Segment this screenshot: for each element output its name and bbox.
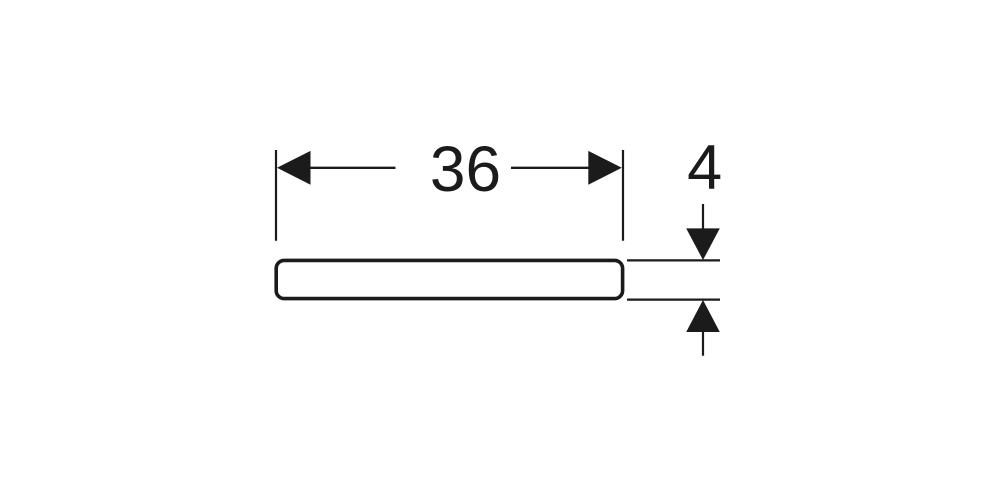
lower stem of thickness dimension <box>702 332 704 356</box>
left arrowhead of width dimension <box>277 151 311 185</box>
down arrowhead of thickness dimension <box>686 228 720 260</box>
bottom thickness extension line <box>627 299 720 301</box>
right extension line <box>622 150 624 241</box>
dimension line, left segment <box>308 167 396 169</box>
svg-text:36: 36 <box>430 133 501 205</box>
upper stem of thickness dimension <box>702 204 704 229</box>
left extension line <box>275 150 277 241</box>
up arrowhead of thickness dimension <box>686 300 720 332</box>
svg-text:4: 4 <box>687 133 722 203</box>
plate (part outline, rounded flat bar) <box>276 260 622 298</box>
right arrowhead of width dimension <box>588 151 622 185</box>
top thickness extension line <box>627 259 720 261</box>
dimension line, right segment <box>511 167 591 169</box>
